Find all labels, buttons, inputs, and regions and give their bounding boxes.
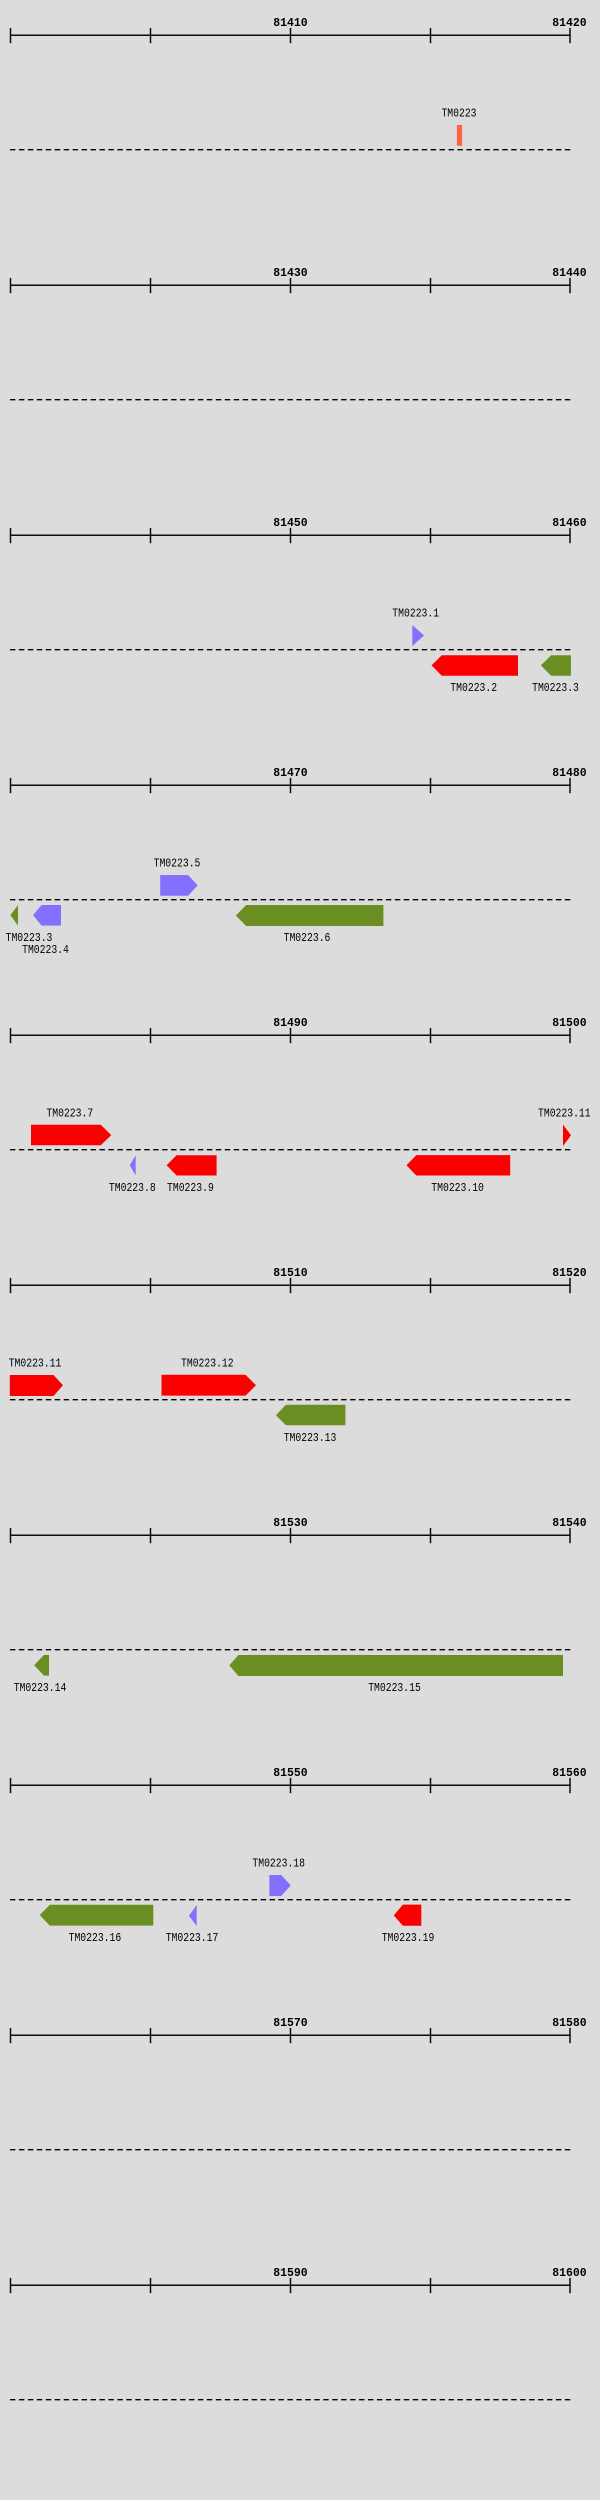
svg-text:TM0223.7: TM0223.7 xyxy=(46,1107,93,1121)
panel 8 strand divider dashed line xyxy=(10,1899,571,1901)
gene TM0223.13 arrow xyxy=(276,1405,346,1426)
svg-text:TM0223.16: TM0223.16 xyxy=(69,1931,122,1945)
panel 7 strand divider dashed line xyxy=(10,1649,571,1651)
svg-text:TM0223.18: TM0223.18 xyxy=(252,1857,305,1871)
gene TM0223.10 arrow xyxy=(407,1155,511,1175)
panel 7 ruler ticks xyxy=(11,1528,571,1543)
svg-text:TM0223.14: TM0223.14 xyxy=(14,1681,67,1695)
svg-text:81480: 81480 xyxy=(552,766,586,780)
svg-text:81560: 81560 xyxy=(552,1766,586,1780)
panel 9 strand divider dashed line xyxy=(10,2149,571,2151)
gene TM0223.17 arrowhead xyxy=(189,1905,197,1926)
gene TM0223.3 arrow xyxy=(541,655,571,676)
svg-text:TM0223.19: TM0223.19 xyxy=(382,1931,435,1945)
panel 4 ruler axis line xyxy=(10,784,571,786)
panel 3 ruler ticks xyxy=(11,528,571,543)
svg-text:81590: 81590 xyxy=(273,2266,307,2280)
svg-text:81550: 81550 xyxy=(273,1766,307,1780)
gene TM0223.19 arrow xyxy=(394,1905,422,1926)
panel 10 ruler ticks xyxy=(11,2278,571,2293)
svg-text:TM0223.13: TM0223.13 xyxy=(284,1431,337,1445)
gene TM0223.5 arrow xyxy=(160,875,198,896)
panel 6 ruler ticks xyxy=(11,1278,571,1293)
svg-text:81510: 81510 xyxy=(273,1266,307,1280)
panel 2 ruler axis line xyxy=(10,284,571,286)
panel 10 ruler axis line xyxy=(10,2284,571,2286)
svg-text:TM0223.15: TM0223.15 xyxy=(368,1681,421,1695)
panel 3 strand divider dashed line xyxy=(10,649,571,651)
gene TM0223.4 arrow xyxy=(33,905,61,926)
gene TM0223.12 arrow xyxy=(162,1375,257,1396)
panel 5 ruler axis line xyxy=(10,1034,571,1036)
panel 8 ruler ticks xyxy=(11,1778,571,1793)
panel 9 ruler ticks xyxy=(11,2028,571,2043)
svg-text:TM0223.2: TM0223.2 xyxy=(450,681,497,695)
panel 1 strand divider dashed line xyxy=(10,149,571,151)
svg-text:TM0223.4: TM0223.4 xyxy=(22,943,69,957)
svg-text:TM0223.11: TM0223.11 xyxy=(9,1357,62,1371)
svg-text:81600: 81600 xyxy=(552,2266,586,2280)
panel 1 ruler axis line xyxy=(10,34,571,36)
panel 6 ruler axis line xyxy=(10,1284,571,1286)
panel 5 strand divider dashed line xyxy=(10,1149,571,1151)
svg-text:TM0223.9: TM0223.9 xyxy=(167,1181,214,1195)
svg-text:81570: 81570 xyxy=(273,2016,307,2030)
svg-text:81470: 81470 xyxy=(273,766,307,780)
svg-text:TM0223.11: TM0223.11 xyxy=(538,1107,591,1121)
svg-text:TM0223.8: TM0223.8 xyxy=(109,1181,156,1195)
svg-text:81500: 81500 xyxy=(552,1016,586,1030)
svg-text:TM0223.17: TM0223.17 xyxy=(166,1931,219,1945)
gene TM0223.11 arrow cont. xyxy=(10,1375,63,1396)
svg-text:81460: 81460 xyxy=(552,516,586,530)
svg-text:TM0223.6: TM0223.6 xyxy=(284,931,331,945)
gene TM0223.15 arrow xyxy=(229,1655,563,1676)
panel 6 strand divider dashed line xyxy=(10,1399,571,1401)
panel 8 ruler axis line xyxy=(10,1784,571,1786)
svg-text:81430: 81430 xyxy=(273,266,307,280)
panel 10 strand divider dashed line xyxy=(10,2399,571,2401)
panel 3 ruler axis line xyxy=(10,534,571,536)
gene TM0223.11 arrowhead xyxy=(563,1125,571,1146)
gene TM0223.3 arrowhead cont. xyxy=(10,905,18,926)
gene TM0223.9 arrow xyxy=(167,1155,217,1175)
gene TM0223.6 arrow xyxy=(236,905,384,926)
panel 1 ruler ticks xyxy=(11,28,571,43)
gene TM0223.7 arrow xyxy=(31,1125,111,1146)
svg-text:TM0223.3: TM0223.3 xyxy=(532,681,579,695)
svg-text:81490: 81490 xyxy=(273,1016,307,1030)
panel 2 ruler ticks xyxy=(11,278,571,293)
panel 9 ruler axis line xyxy=(10,2034,571,2036)
svg-text:81540: 81540 xyxy=(552,1516,586,1530)
panel 5 ruler ticks xyxy=(11,1028,571,1043)
gene TM0223.2 arrow xyxy=(432,655,519,676)
gene TM0223.8 arrowhead xyxy=(130,1155,136,1175)
svg-text:81530: 81530 xyxy=(273,1516,307,1530)
svg-text:TM0223: TM0223 xyxy=(441,107,476,121)
svg-text:81410: 81410 xyxy=(273,16,307,30)
svg-text:81520: 81520 xyxy=(552,1266,586,1280)
svg-text:81440: 81440 xyxy=(552,266,586,280)
svg-text:TM0223.12: TM0223.12 xyxy=(181,1357,234,1371)
gene TM0223.16 arrow xyxy=(40,1905,154,1926)
svg-text:TM0223.1: TM0223.1 xyxy=(392,607,439,621)
svg-text:81450: 81450 xyxy=(273,516,307,530)
gene TM0223 bar xyxy=(457,125,462,146)
gene TM0223.14 arrow xyxy=(34,1655,49,1676)
svg-text:81580: 81580 xyxy=(552,2016,586,2030)
svg-text:81420: 81420 xyxy=(552,16,586,30)
svg-text:TM0223.10: TM0223.10 xyxy=(431,1181,484,1195)
gene TM0223.18 arrow xyxy=(269,1875,291,1896)
panel 4 strand divider dashed line xyxy=(10,899,571,901)
panel 4 ruler ticks xyxy=(11,778,571,793)
panel 2 strand divider dashed line xyxy=(10,399,571,401)
svg-text:TM0223.5: TM0223.5 xyxy=(154,857,201,871)
gene TM0223.1 arrow xyxy=(412,625,424,646)
panel 7 ruler axis line xyxy=(10,1534,571,1536)
